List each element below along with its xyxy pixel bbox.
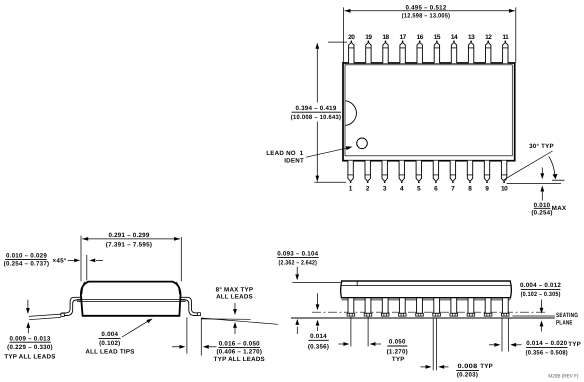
- svg-text:16: 16: [417, 34, 424, 41]
- svg-text:0.016 – 0.050: 0.016 – 0.050: [219, 340, 260, 347]
- top view: horizontal dimension extension line right: [515, 7, 517, 62]
- top view: pin 12 lead (top row): [486, 42, 491, 63]
- end view: lead 6 foot: [433, 313, 441, 316]
- svg-text:0.050: 0.050: [389, 339, 406, 346]
- svg-text:(12.598 – 13.005): (12.598 – 13.005): [402, 13, 451, 20]
- side view: left gull-wing lead outer line: [61, 297, 81, 313]
- svg-text:18: 18: [382, 34, 389, 41]
- svg-text:(0.229 – 0.330): (0.229 – 0.330): [7, 344, 53, 351]
- svg-text:(0.102 – 0.305): (0.102 – 0.305): [521, 291, 561, 298]
- top view: pin 19 lead (top row): [366, 42, 371, 63]
- side view: 0.016-0.050 dimension arrows: [172, 346, 180, 348]
- svg-text:1: 1: [349, 186, 353, 193]
- end view: lead 1 vertical lead: [348, 298, 354, 314]
- svg-text:10: 10: [501, 186, 508, 193]
- svg-text:(0.356 – 0.508): (0.356 – 0.508): [526, 349, 568, 356]
- top view: vertical dimension 0.394-0.419 top extension line: [328, 41, 347, 43]
- side view: dimension 0.291-0.299 extension line left: [80, 236, 82, 281]
- top view: pin 7 lead (bottom row): [450, 161, 455, 182]
- side view: left seating reference line lower: [29, 317, 61, 319]
- side view: left lead tip tab: [61, 313, 64, 316]
- side view: package body outline: [81, 282, 181, 316]
- side view: leader arrow from 0.004 to lead tip: [122, 321, 149, 337]
- svg-text:×45°: ×45°: [53, 258, 67, 265]
- svg-text:(0.356): (0.356): [308, 343, 329, 350]
- top view: horizontal dimension 0.495-0.512 extension line left: [342, 7, 344, 62]
- end view: body bottom edge line: [341, 297, 511, 299]
- side view: dimension 0.291-0.299 extension line right: [180, 237, 182, 281]
- svg-text:20: 20: [348, 34, 355, 41]
- svg-text:SEATING: SEATING: [556, 312, 578, 319]
- end view: lead 6 vertical lead: [434, 298, 440, 314]
- svg-text:TYP: TYP: [392, 356, 405, 363]
- svg-text:30° TYP: 30° TYP: [529, 143, 554, 150]
- svg-text:(10.008 – 10.643): (10.008 – 10.643): [291, 114, 342, 121]
- end view: lead 10 foot: [501, 313, 509, 316]
- svg-text:0.014: 0.014: [310, 333, 327, 340]
- end view: lead 9 vertical lead: [485, 298, 491, 314]
- end view: 0.050 dimension arrows: [339, 343, 344, 345]
- side view: right tilted 8 degree line: [201, 318, 278, 324]
- side view: left seating reference line upper: [29, 314, 61, 316]
- top view: pin 8 lead (bottom row): [467, 161, 472, 182]
- top view: 30 degree lead angle reference diagonal line: [504, 151, 553, 180]
- side view: right chamfer arc detail: [177, 282, 180, 294]
- side view: right seating plane line horizontal: [201, 318, 251, 320]
- svg-text:2: 2: [366, 186, 370, 193]
- svg-text:0.004: 0.004: [101, 331, 118, 338]
- end view: body top edge extended line: [292, 281, 342, 283]
- top view: pin 9 lead (bottom row): [484, 161, 489, 182]
- svg-text:5: 5: [417, 186, 421, 193]
- end view: lead 7 vertical lead: [451, 298, 457, 314]
- end view: lead 8 vertical lead: [468, 298, 474, 314]
- top view: pin 14 lead (top row): [451, 42, 456, 63]
- end view: lead thickness 0.008 extension line right: [436, 319, 438, 371]
- top view: lead tip horizontal reference line: [507, 183, 562, 185]
- end view: lead 5 foot: [416, 313, 424, 316]
- top view: pin 15 lead (top row): [434, 42, 439, 63]
- top view: pin 13 lead (top row): [468, 42, 473, 63]
- svg-text:19: 19: [365, 34, 372, 41]
- side view: 8 deg dimension down arrow: [234, 303, 236, 309]
- end view: lead 1 foot: [347, 313, 355, 316]
- end view: package body: [341, 281, 512, 298]
- end view: lead 9 foot: [484, 313, 492, 316]
- top view: 0.010 MAX dimension arrows: [541, 168, 543, 174]
- svg-text:(1.270): (1.270): [387, 348, 408, 355]
- top view: pin 5 lead (bottom row): [416, 161, 421, 182]
- end view: body top edge thick line: [341, 280, 511, 282]
- svg-text:TYP: TYP: [568, 341, 581, 348]
- top view: pin 11 lead (top row): [503, 42, 508, 63]
- end view: 0.004-0.012 down arrow: [541, 300, 543, 308]
- svg-text:0.009 – 0.013: 0.009 – 0.013: [9, 335, 50, 342]
- top view: dimension line 0.495-0.512 with arrows: [345, 10, 516, 12]
- svg-text:0.004 – 0.012: 0.004 – 0.012: [520, 282, 561, 289]
- svg-text:(0.254 – 0.737): (0.254 – 0.737): [4, 261, 50, 268]
- end view: lead 4 foot: [399, 313, 407, 316]
- svg-text:6: 6: [434, 186, 438, 193]
- top view: pin 1 ident circle: [357, 138, 368, 149]
- end view: overall height up arrow: [296, 327, 298, 335]
- svg-text:PLANE: PLANE: [556, 320, 573, 327]
- svg-text:15: 15: [434, 34, 441, 41]
- end view: lead 4 vertical lead: [399, 298, 405, 314]
- end view: back leads shoulder line: [342, 299, 511, 301]
- end view: lead 8 foot: [467, 313, 475, 316]
- svg-text:LEAD NO 1: LEAD NO 1: [266, 150, 304, 157]
- side view: parting line lower: [77, 301, 186, 303]
- svg-text:(0.203): (0.203): [457, 372, 478, 379]
- end view: lid step tick at left: [356, 281, 358, 286]
- end view: lead 2 vertical lead: [365, 298, 371, 314]
- side view: lead thickness dimension down arrow: [27, 300, 29, 308]
- side view: lead foot length extension line right: [200, 319, 202, 356]
- top view: pin 18 lead (top row): [383, 42, 388, 63]
- top view: vertical dimension line lower segment with down arrow: [316, 122, 318, 182]
- svg-text:0.010: 0.010: [534, 202, 551, 209]
- end view: lead width extension line right: [508, 319, 510, 352]
- top view: pin 10 lead (bottom row): [501, 161, 506, 182]
- svg-text:(0.406 – 1.270): (0.406 – 1.270): [216, 348, 262, 355]
- svg-text:TYP ALL LEADS: TYP ALL LEADS: [214, 356, 265, 363]
- svg-text:13: 13: [468, 34, 475, 41]
- svg-text:MAX: MAX: [552, 205, 567, 212]
- end view: lead 3 foot: [381, 313, 389, 316]
- top view: package body outer outline: [343, 63, 515, 161]
- svg-text:(7.391 – 7.595): (7.391 – 7.595): [106, 241, 153, 248]
- svg-text:M20B (REV F): M20B (REV F): [548, 373, 578, 379]
- side view: parting line upper: [77, 299, 186, 301]
- side view: 8 deg dimension up arrow: [234, 328, 236, 334]
- top view: vertical dimension bottom extension line: [315, 181, 347, 183]
- svg-text:(2.362 – 2.642): (2.362 – 2.642): [279, 260, 318, 267]
- svg-text:0.014 – 0.020: 0.014 – 0.020: [526, 340, 567, 347]
- end view: lead 3 vertical lead: [382, 298, 388, 314]
- end view: lead pitch 0.050 extension line left: [350, 317, 352, 347]
- svg-text:(0.102): (0.102): [99, 340, 120, 347]
- top view: vertical dimension line upper segment with up arrow: [316, 44, 318, 103]
- svg-text:ALL LEAD TIPS: ALL LEAD TIPS: [85, 348, 134, 355]
- top view: pin 20 lead (top row): [349, 42, 354, 63]
- end view: lead width extension line left: [501, 319, 503, 352]
- side view: lead foot length extension line left: [186, 318, 188, 354]
- side view: right gull-wing lead inner line: [180, 300, 200, 316]
- end view: standoff 0.014 up arrow: [317, 327, 319, 332]
- top view: pin 16 lead (top row): [417, 42, 422, 63]
- svg-text:11: 11: [502, 34, 509, 41]
- side view: right lead tip tab: [197, 313, 200, 316]
- svg-text:ALL LEADS: ALL LEADS: [216, 294, 253, 301]
- end view: 0.014-0.020 dimension arrows: [489, 344, 495, 346]
- top view: 30 degree angle arc with arrowhead: [549, 156, 555, 177]
- end view: seating plane line: [291, 317, 555, 319]
- svg-text:0.495 – 0.512: 0.495 – 0.512: [405, 5, 446, 12]
- top view: end notch semicircle on left edge: [346, 101, 357, 126]
- svg-text:12: 12: [485, 34, 492, 41]
- top view: pin 1 lead (bottom row): [348, 161, 353, 182]
- side view: chamfer extension line: [86, 255, 88, 281]
- top view: pin 2 lead (bottom row): [365, 161, 370, 182]
- svg-text:0.093 – 0.104: 0.093 – 0.104: [277, 250, 318, 257]
- svg-text:7: 7: [451, 186, 455, 193]
- side view: right gull-wing lead outer line: [180, 297, 200, 313]
- svg-text:0.394 – 0.419: 0.394 – 0.419: [295, 105, 336, 112]
- top view: pin 4 lead (bottom row): [399, 161, 404, 182]
- end view: dash-dot reference line through lead feet: [312, 311, 545, 313]
- end view: lead 10 vertical lead: [502, 298, 508, 314]
- svg-text:IDENT: IDENT: [284, 158, 304, 165]
- top view: leader line from label to pin 1 ident circle: [306, 148, 348, 157]
- top view: pin 3 lead (bottom row): [382, 161, 387, 182]
- svg-text:9: 9: [485, 186, 489, 193]
- end view: standoff 0.014 down arrow: [317, 293, 319, 304]
- end view: lead tip reference line right: [513, 315, 555, 317]
- top view: short tick line under arc arrow: [552, 179, 565, 181]
- svg-text:(0.254): (0.254): [531, 210, 552, 217]
- end view: 0.004-0.012 up arrow: [541, 326, 543, 331]
- end view: lead 5 vertical lead: [417, 298, 423, 314]
- svg-text:0.008: 0.008: [458, 363, 478, 370]
- svg-text:4: 4: [400, 186, 404, 193]
- top view: pin 6 lead (bottom row): [433, 161, 438, 182]
- end view: lead 7 foot: [450, 313, 458, 316]
- end view: lead thickness 0.008 extension line left: [432, 319, 434, 371]
- side view: dimension line 0.291-0.299 with outward arrows: [82, 238, 180, 240]
- end view: overall height down arrow: [296, 267, 298, 275]
- side view: left chamfer arc detail: [82, 282, 85, 294]
- svg-text:3: 3: [383, 186, 387, 193]
- svg-text:14: 14: [451, 34, 458, 41]
- side view: lead thickness dimension up arrow: [27, 328, 29, 334]
- side view: left gull-wing lead inner line: [61, 300, 81, 316]
- top view: package body inner outline: [345, 65, 512, 156]
- end view: 0.008 dimension arrows: [421, 366, 426, 368]
- svg-text:8: 8: [468, 186, 472, 193]
- svg-text:TYP ALL LEADS: TYP ALL LEADS: [4, 354, 55, 361]
- svg-text:0.291 – 0.299: 0.291 – 0.299: [108, 232, 149, 239]
- svg-text:TYP: TYP: [480, 363, 493, 370]
- svg-text:8° MAX TYP: 8° MAX TYP: [216, 287, 254, 294]
- end view: lead pitch 0.050 extension line right: [367, 317, 369, 347]
- svg-text:0.010 – 0.029: 0.010 – 0.029: [6, 252, 47, 259]
- end view: lead 2 foot: [364, 313, 372, 316]
- top view: pin 17 lead (top row): [400, 42, 405, 63]
- side view: chamfer dimension arrows x45: [68, 259, 75, 261]
- svg-text:17: 17: [399, 34, 406, 41]
- end view: body lid parting line: [341, 285, 510, 287]
